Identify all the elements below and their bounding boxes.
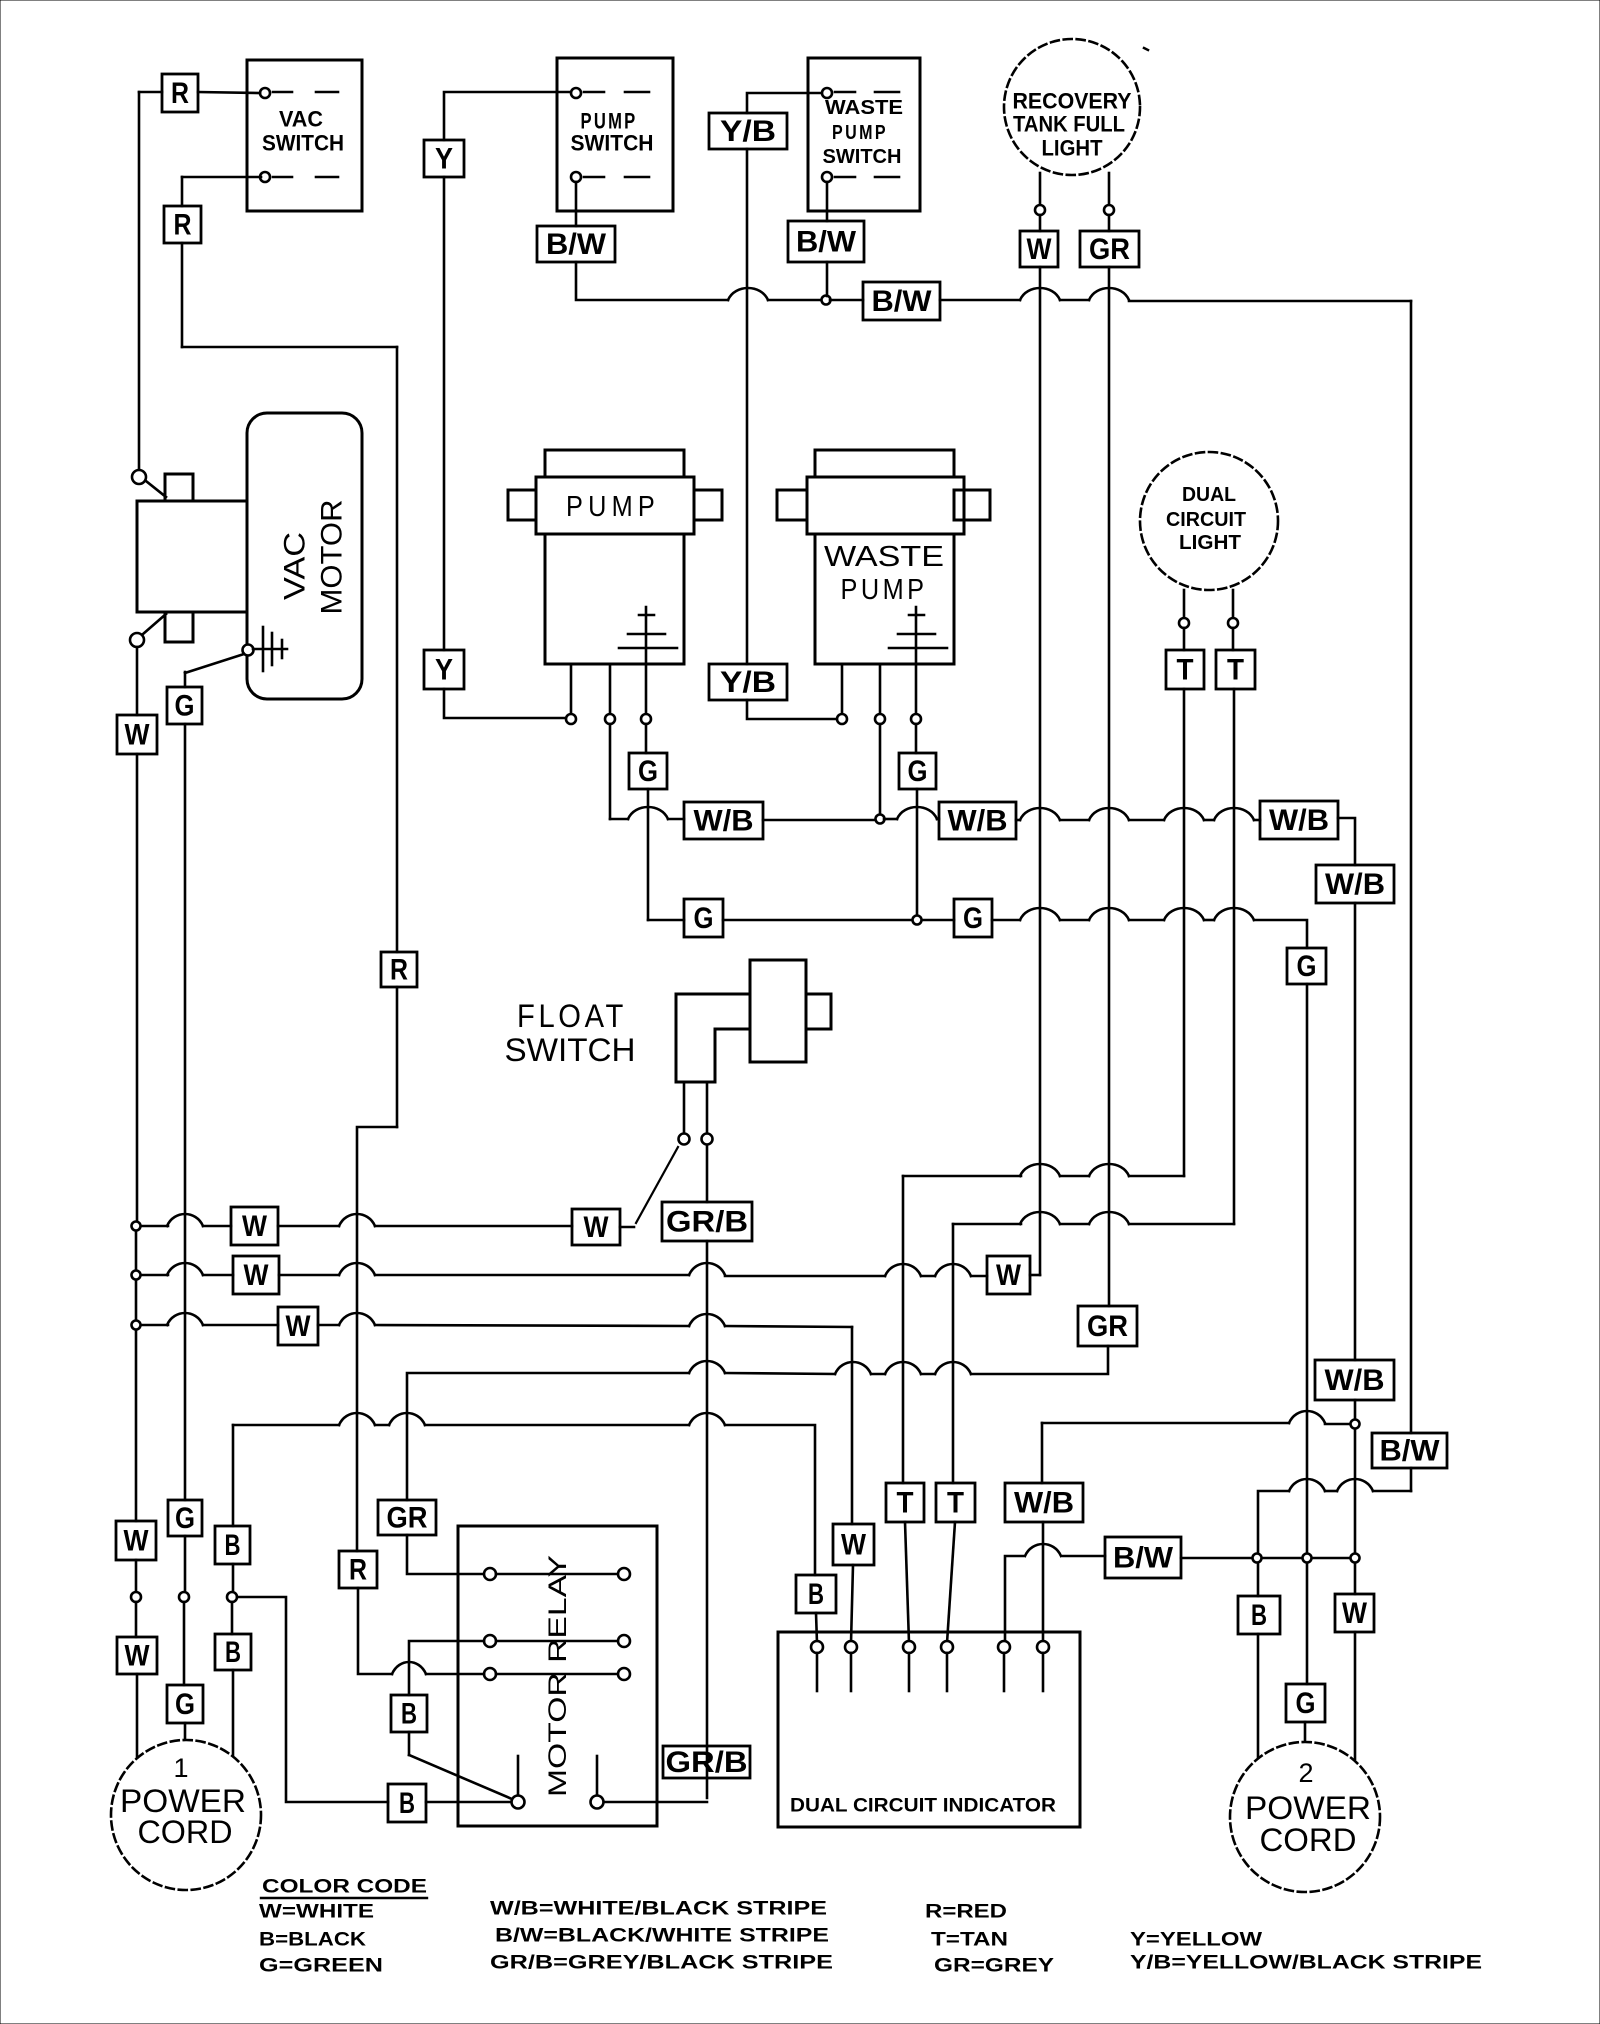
wire contact right to GR/B corner: [604, 1801, 707, 1804]
wire W bus 2 mid4: [921, 1275, 935, 1278]
wire diagonal notch to bottom terminal: [143, 614, 166, 634]
wire B1 to indicator: [816, 1613, 817, 1643]
wire B4 to relay contact: [426, 1801, 511, 1804]
wire hop over GR wire (recovery): [1089, 288, 1129, 300]
terminal vac motor ground lug: [243, 645, 254, 656]
wire pump pin 2 down to W/B bus: [609, 724, 612, 819]
svg-text:W: W: [841, 1529, 867, 1562]
wire hop over T upper (bus2): [885, 1264, 921, 1276]
terminal waste pin 2: [875, 714, 885, 724]
label G 4 (green wire): [954, 899, 992, 937]
svg-text:T: T: [1177, 654, 1194, 687]
svg-text:T: T: [947, 1487, 964, 1520]
relay K1 row2 left terminal: [484, 1635, 496, 1647]
relay K1 row3 right terminal: [618, 1668, 630, 1680]
junction G at B/W bottom bus: [1303, 1554, 1312, 1563]
svg-text:FLOAT: FLOAT: [517, 998, 627, 1034]
svg-text:SWITCH: SWITCH: [262, 131, 344, 156]
wire W bus 1 to label: [203, 1225, 231, 1228]
wire GR/B long vertical: [706, 1241, 709, 1798]
switch S4 body: [750, 960, 806, 1062]
wire hop over B vert (row3 wire): [392, 1662, 426, 1674]
svg-text:WASTE: WASTE: [825, 97, 903, 119]
indicator terminal 3 stub: [908, 1653, 911, 1691]
wire B/W to right edge corner: [1129, 300, 1411, 303]
wire hop over GR vert (B link): [389, 1413, 425, 1425]
wire W to connector: [135, 1560, 138, 1592]
motor M3 VAC MOTOR outline (rounded): [247, 413, 362, 699]
wire hop over G wire (bus3): [167, 1313, 203, 1325]
terminal float left: [679, 1134, 690, 1145]
wire R4 down and right to row3: [358, 1588, 392, 1674]
svg-text:T: T: [897, 1487, 914, 1520]
power cord P1 (dashed circle): [111, 1740, 261, 1890]
wire W/B junction to hop: [884, 818, 897, 821]
ground symbol at vac motor: bar 3: [281, 640, 284, 658]
svg-text:WASTE: WASTE: [824, 541, 944, 573]
switch S1 terminal 2: [260, 172, 270, 182]
junction W bus 2: [132, 1271, 141, 1280]
junction W/B branch: [1351, 1420, 1360, 1429]
wire float lead left: [683, 1082, 686, 1133]
label GR 1 (grey wire): [1080, 231, 1139, 267]
wire hop over W wire: [1020, 808, 1060, 820]
motor M2 left ear: [777, 490, 807, 520]
wire waste green down to junction: [916, 789, 919, 915]
junction W bus 1: [132, 1222, 141, 1231]
ground symbol in pump: bar 3: [619, 647, 677, 650]
wire W/B link horizontal: [1042, 1422, 1289, 1425]
svg-text:R: R: [174, 209, 192, 242]
wire T crossover upper mid: [1060, 1175, 1089, 1178]
wire waste switch terminal to Y/B: [747, 93, 822, 113]
wire T left to label: [1183, 628, 1186, 650]
motor M2 body: [815, 534, 954, 664]
motor M1 PUMP top cap: [545, 450, 684, 477]
wire G junction to label: [922, 919, 954, 922]
indicator terminal 2 stub: [850, 1653, 853, 1691]
motor M3 body block: [137, 501, 247, 612]
wire hop over G wire (bus2): [167, 1263, 203, 1275]
relay K1 switch post right: [596, 1756, 599, 1794]
wire DS1 left lead: [1039, 173, 1042, 205]
wire pump green down: [647, 789, 650, 920]
wire W bus 3 to label: [203, 1324, 278, 1327]
wire B/W junction1 to junction2: [1262, 1557, 1301, 1560]
switch S1 box VAC SWITCH: [247, 60, 362, 211]
wire Y vertical: [443, 177, 446, 650]
svg-text:Y/B=YELLOW/BLACK STRIPE: Y/B=YELLOW/BLACK STRIPE: [1130, 1953, 1482, 1974]
lamp DS1 RECOVERY TANK FULL LIGHT (dashed circle): [1004, 39, 1140, 175]
svg-text:COLOR CODE: COLOR CODE: [262, 1877, 427, 1898]
switch S1 contact dashes row 2: [273, 176, 292, 179]
wire B/W down to corner: [576, 262, 728, 300]
wire T lower vertical down: [952, 1224, 955, 1483]
label G 8 (green wire): [168, 1500, 202, 1536]
svg-text:W/B: W/B: [1269, 804, 1329, 837]
wire Y/B vertical: [746, 149, 749, 664]
wire GR vertical long: [1108, 267, 1111, 1306]
wire B2 to connector: [232, 1564, 235, 1592]
label GR 2 (grey wire): [1078, 1306, 1137, 1346]
wire W/B between3: [1204, 819, 1214, 822]
junction B/W bottom 1: [1253, 1554, 1262, 1563]
label W 7 (white wire): [231, 1207, 278, 1245]
svg-text:Y: Y: [435, 143, 453, 176]
svg-text:GR: GR: [1089, 233, 1130, 266]
terminal connector on W lead: [1035, 205, 1045, 215]
junction W/B at waste pin 2: [876, 815, 885, 824]
connector on W wire: [131, 1592, 141, 1602]
wire W/B down to W label: [1354, 1563, 1357, 1594]
wire hop over W/B6 wire: [1025, 1544, 1061, 1556]
wire GR link to corner left: [407, 1373, 689, 1500]
wire hop over R wire (bus2): [339, 1263, 375, 1275]
wire W bus 3 to corner: [725, 1326, 852, 1327]
indicator terminal 3: [903, 1641, 915, 1653]
label Y1 (yellow wire): [424, 140, 464, 177]
wire W into power cord 1: [136, 1674, 139, 1760]
svg-text:SWITCH: SWITCH: [571, 131, 654, 156]
wire B link corner left: [233, 1424, 339, 1427]
svg-text:W/B=WHITE/BLACK STRIPE: W/B=WHITE/BLACK STRIPE: [490, 1899, 827, 1920]
label B 1 (black wire): [796, 1575, 836, 1613]
wire W bus 2 to label: [203, 1274, 233, 1277]
svg-text:VAC: VAC: [279, 107, 323, 132]
svg-text:Y/B: Y/B: [720, 666, 776, 699]
wire T crossover upper: [903, 1175, 1021, 1178]
svg-text:1: 1: [173, 1753, 188, 1783]
wire hop over T lower (bus2): [935, 1264, 971, 1276]
wire hop over W10 wire (GR link): [835, 1362, 871, 1374]
connector on B wire: [227, 1592, 237, 1602]
label B 4 (black wire): [388, 1784, 426, 1822]
wire hop over GR wire (T lower): [1089, 1212, 1129, 1224]
wire W10 to indicator: [851, 1565, 853, 1643]
label B/W 4 (black/white stripe): [1105, 1537, 1181, 1578]
label G 7 (green wire): [167, 687, 202, 724]
ground symbol in waste pump: bar 3: [889, 647, 947, 650]
svg-text:SWITCH: SWITCH: [823, 146, 902, 168]
svg-text:W/B: W/B: [1014, 1487, 1074, 1520]
motor M3 top notch: [165, 474, 193, 501]
wire T4 to indicator: [947, 1522, 955, 1643]
wire waste lead 2: [879, 664, 882, 714]
wire pump pin 3 down to G label: [645, 724, 648, 753]
wire pump lead 2: [609, 664, 612, 714]
indicator A1 box DUAL CIRCUIT INDICATOR: [778, 1632, 1080, 1827]
ground symbol in pump: stem: [645, 607, 648, 714]
wire hop over W wire (recovery): [1020, 288, 1060, 300]
svg-text:W: W: [1342, 1597, 1368, 1630]
relay K1 switch post left: [517, 1756, 520, 1794]
terminal float right: [702, 1134, 713, 1145]
wire hop over GR wire: [1089, 808, 1129, 820]
wire hop over G wire (bus1): [167, 1214, 203, 1226]
label W/B 6 (white/black stripe): [1005, 1483, 1083, 1522]
wire B/W 3 down to junction: [826, 262, 829, 296]
wire G to connector: [184, 1536, 187, 1592]
wire B6 down: [408, 1732, 411, 1755]
svg-text:W: W: [125, 719, 151, 752]
wire W bus 3 from junction: [141, 1324, 168, 1327]
ground symbol in waste pump: stem: [915, 607, 918, 714]
wire W/B long vertical: [1354, 903, 1357, 1360]
switch S3 terminal 1: [822, 88, 832, 98]
svg-text:G: G: [963, 902, 983, 935]
wire W/B label3 to corner: [1338, 818, 1355, 865]
svg-text:W: W: [1027, 233, 1053, 266]
label GR/B 1 (grey/black stripe): [662, 1202, 752, 1241]
terminal vac motor bottom: [130, 633, 144, 647]
switch S4 bracket: [676, 994, 750, 1082]
wire R: node to R1: [139, 91, 162, 94]
svg-text:B: B: [225, 1529, 241, 1562]
svg-text:G: G: [908, 755, 928, 788]
wire DS2 left lead: [1183, 590, 1186, 618]
switch S2 contact dashes row 1: [584, 91, 604, 94]
label W 9 (white wire): [278, 1307, 318, 1345]
relay K1 row2 right terminal: [618, 1635, 630, 1647]
svg-text:G: G: [175, 1688, 195, 1721]
svg-text:G: G: [694, 902, 714, 935]
wire R down-left vertical to vac motor: [138, 92, 141, 470]
label Y2 (yellow wire): [424, 650, 464, 689]
svg-text:W: W: [286, 1310, 312, 1343]
label B 3 (black wire): [215, 1634, 251, 1670]
wire B/W right leftward: [1373, 1490, 1411, 1493]
wire B connector down: [231, 1602, 234, 1634]
wire DS1 right lead: [1108, 173, 1111, 205]
wire W/B label2 to hop: [1016, 819, 1020, 822]
svg-text:B: B: [808, 1578, 824, 1611]
svg-text:LIGHT: LIGHT: [1179, 532, 1241, 554]
wire G between2: [1129, 919, 1164, 922]
wire hop over R wire (B link): [339, 1413, 375, 1425]
wire W left vertical: [136, 754, 139, 1221]
wire G bus start corner: [648, 919, 684, 922]
wire W bus 1 mid: [278, 1225, 339, 1228]
connector on G wire: [179, 1592, 189, 1602]
ground symbol in pump: bar 1: [639, 614, 654, 617]
svg-text:G: G: [638, 755, 658, 788]
svg-text:W/B: W/B: [1325, 1364, 1385, 1397]
svg-text:GR/B: GR/B: [666, 1746, 748, 1779]
wire T crossover lower right: [1129, 1223, 1234, 1226]
switch S3 contact dashes row 1: [835, 91, 855, 94]
svg-text:DUAL CIRCUIT INDICATOR: DUAL CIRCUIT INDICATOR: [790, 1796, 1056, 1817]
svg-text:R: R: [390, 954, 408, 987]
label T 4 (tan wire): [936, 1483, 975, 1522]
wire W/B link to junction: [1325, 1423, 1350, 1426]
wire W bus 3 mid2: [375, 1325, 689, 1326]
wire W connector down: [135, 1602, 138, 1637]
wire waste lead 1: [841, 664, 844, 714]
svg-text:CORD: CORD: [138, 1814, 233, 1850]
indicator terminal 4 stub: [946, 1653, 949, 1691]
label W/B 1 (white/black stripe): [684, 802, 763, 839]
svg-text:W=WHITE: W=WHITE: [259, 1902, 374, 1923]
relay K1 row1 link: [496, 1573, 618, 1576]
wire hop over T upper (GR link): [885, 1362, 921, 1374]
wire diagonal top terminal to notch: [146, 481, 166, 497]
motor M1 body: [545, 534, 684, 664]
svg-text:G=GREEN: G=GREEN: [259, 1956, 383, 1977]
label T 3 (tan wire): [886, 1483, 924, 1522]
wire R jog right: [182, 346, 397, 349]
wire R2 down: [181, 243, 184, 347]
switch S2 terminal 1: [571, 88, 581, 98]
wire hop over Y/B wire: [728, 288, 768, 300]
wire waste pin 2 down to W/B junction: [879, 724, 882, 814]
svg-text:GR: GR: [387, 1502, 428, 1535]
wire B/W right down: [1410, 1468, 1413, 1491]
wire Y/B to waste pump terminal: [747, 700, 837, 719]
wire hop over GR/B wire (bus2): [689, 1263, 725, 1275]
wire W/B to label 3: [1254, 819, 1260, 822]
wire B into power cord 1: [232, 1670, 235, 1760]
svg-text:B: B: [401, 1698, 417, 1731]
wire T crossover lower: [953, 1223, 1021, 1226]
indicator terminal 6: [1037, 1641, 1049, 1653]
label G 9 (green wire): [167, 1685, 203, 1723]
svg-text:R: R: [349, 1554, 367, 1587]
relay K1 switch contact left: [512, 1796, 525, 1809]
svg-text:T: T: [1227, 654, 1244, 687]
switch S2 terminal 2: [571, 172, 581, 182]
svg-text:2: 2: [1298, 1758, 1313, 1788]
svg-text:B/W: B/W: [1113, 1542, 1174, 1575]
wire DS2 right lead: [1232, 590, 1235, 618]
wire W into power cord 2: [1354, 1632, 1357, 1759]
motor M1 left ear: [508, 490, 536, 520]
label W 6 (white wire): [572, 1209, 620, 1245]
wire hop over pump green wire: [628, 807, 668, 819]
svg-text:Y/B: Y/B: [720, 115, 776, 148]
wire W bus 3 vertical down: [851, 1327, 854, 1524]
wire GR label to corner: [971, 1346, 1108, 1374]
wire GR link mid3: [725, 1373, 835, 1374]
wire T right to label: [1232, 628, 1235, 650]
label W/B 5 (white/black stripe): [1315, 1360, 1394, 1400]
wire hop over R wire (bus1): [339, 1214, 375, 1226]
motor M1 right ear: [694, 490, 722, 520]
wire Y to pump terminal: [444, 689, 566, 718]
wire W/B between: [1060, 819, 1089, 822]
wire hop over T lower (GR link): [935, 1362, 971, 1374]
relay K1 row1 left terminal: [484, 1568, 496, 1580]
wire row3 continue: [426, 1673, 484, 1676]
svg-text:MOTOR: MOTOR: [316, 500, 349, 615]
svg-text:B: B: [225, 1636, 241, 1669]
terminal waste pin 3 (ground): [911, 714, 921, 724]
terminal connector on T lead left: [1179, 618, 1189, 628]
wire T right vertical: [1233, 689, 1236, 1224]
svg-text:W: W: [244, 1259, 270, 1292]
label G 6 (green wire): [1286, 1684, 1325, 1722]
wire W bus 3 mid: [318, 1324, 339, 1327]
wire G long vertical: [1306, 984, 1309, 1554]
svg-text:G: G: [175, 690, 195, 723]
indicator terminal 6 stub: [1042, 1653, 1045, 1691]
wire W bus 2 mid2: [375, 1274, 689, 1277]
label W/B 4 (white/black stripe): [1316, 865, 1394, 903]
power cord P2 (dashed circle): [1230, 1742, 1380, 1892]
relay K1 row1 right terminal: [618, 1568, 630, 1580]
wire B/W label to junction 1: [1181, 1557, 1252, 1560]
switch S2 box PUMP SWITCH: [557, 58, 673, 211]
wire hop over GR wire (G bus): [1089, 908, 1129, 920]
svg-text:PUMP: PUMP: [832, 122, 888, 144]
svg-text:W/B: W/B: [694, 805, 754, 838]
wire B link mid2: [425, 1424, 689, 1427]
label B/W 3 (black/white stripe): [788, 221, 864, 262]
svg-text:B/W: B/W: [1380, 1435, 1441, 1468]
wire W between junctions 2: [135, 1280, 138, 1320]
wire hop over T wire right: [1214, 808, 1254, 820]
wire T crossover upper right: [1129, 1175, 1184, 1178]
wire W/B junction down: [1354, 1429, 1357, 1554]
terminal connector on GR lead: [1104, 205, 1114, 215]
wire W lead to label: [1039, 215, 1042, 231]
indicator terminal 1 stub: [816, 1653, 819, 1691]
svg-text:GR/B=GREY/BLACK STRIPE: GR/B=GREY/BLACK STRIPE: [490, 1953, 833, 1974]
wire W vertical long (recovery to W bus): [1039, 267, 1042, 1275]
ground symbol at vac motor: stem: [253, 648, 287, 651]
svg-text:B: B: [1251, 1599, 1267, 1632]
motor M2 label band (blank): [807, 477, 964, 534]
svg-text:W: W: [125, 1640, 151, 1673]
ground symbol in waste pump: bar 2: [898, 633, 935, 636]
label W 11 (white wire): [233, 1256, 279, 1294]
motor M1 PUMP label band: [536, 477, 694, 534]
wire W/B link from corner: [1041, 1423, 1044, 1483]
label B 5 (black wire): [1238, 1596, 1280, 1634]
wire GR to relay row 1: [407, 1535, 484, 1574]
switch S3 contact dashes row 2: [835, 176, 855, 179]
wire W bus 1 from junction: [141, 1225, 168, 1228]
wire Y top horizontal: [444, 92, 571, 140]
label W 5 (white wire): [117, 1637, 157, 1674]
wire waste pin 3 down to G label: [915, 724, 918, 753]
wire hop over T wire left: [1164, 808, 1204, 820]
motor M2 WASTE PUMP top cap: [815, 450, 954, 477]
label W 10 (white wire): [833, 1524, 874, 1565]
wire GR/B from float terminal: [706, 1145, 709, 1202]
svg-text:SWITCH: SWITCH: [505, 1032, 636, 1068]
svg-text:G: G: [175, 1502, 195, 1535]
label G 1 (green wire): [629, 753, 667, 789]
wire hop over W/B vert (B/W right): [1337, 1479, 1373, 1491]
junction G at waste green: [913, 916, 922, 925]
wire S3 terminal 2 down: [826, 182, 829, 221]
wire W bus 1 stub to blade: [620, 1226, 634, 1229]
label Y/B 2 (yellow/black stripe): [709, 664, 787, 700]
wire white from motor bottom: [136, 647, 139, 715]
label B 6 (black wire): [391, 1695, 427, 1732]
wire T3 to indicator: [905, 1522, 909, 1643]
wire hop over W wire (T upper): [1020, 1164, 1060, 1176]
label GR/B 2 (grey/black stripe): [663, 1746, 750, 1778]
wire G to junction: [723, 919, 912, 922]
wire B into power cord 2: [1257, 1634, 1260, 1760]
wire hop over waste green wire: [897, 807, 937, 819]
label R3 (red wire): [381, 952, 417, 987]
wire W/B to junction: [763, 819, 875, 822]
wire B to relay row2: [409, 1641, 484, 1695]
svg-text:PUMP: PUMP: [841, 574, 928, 606]
wire hop over GR/B (GR link): [689, 1361, 725, 1373]
